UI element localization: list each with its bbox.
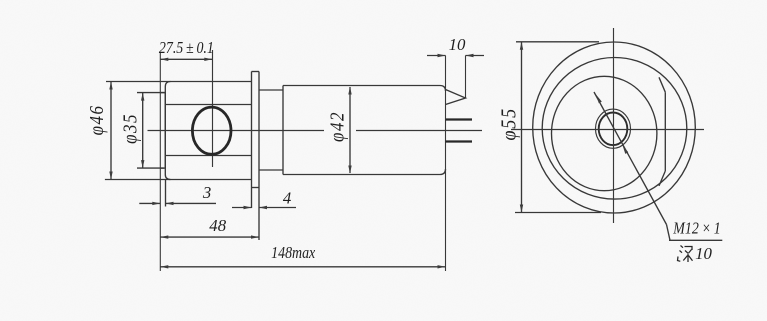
body block bottom edge with phi46 extension (105, 179, 252, 181)
glyph shen (depth) hand drawn (678, 246, 693, 263)
pin upper (446, 118, 473, 120)
svg-text:φ55: φ55 (498, 107, 520, 140)
barrel phi42 top edge (283, 86, 446, 92)
vertical centerline through hex body (212, 50, 214, 167)
barrel left face (282, 86, 284, 175)
body block top edge with phi46 extension (106, 81, 252, 83)
dimension 48 (160, 236, 259, 238)
dimension 148max (160, 266, 445, 268)
port circle (192, 107, 231, 154)
dimension 3 (139, 202, 160, 204)
dimension phi42 (349, 87, 351, 173)
connector key flat (664, 92, 666, 171)
dimension phi46 (110, 82, 112, 180)
barrel phi42 bottom edge (283, 169, 446, 175)
right view circle2 (542, 58, 687, 200)
svg-text:148max: 148max (271, 244, 315, 263)
right view outer circle (533, 42, 696, 213)
dimension 4 (232, 207, 252, 209)
right view vertical centerline (613, 28, 615, 223)
mounting plate (251, 72, 253, 209)
svg-text:10: 10 (449, 35, 466, 54)
thread circle inner (599, 113, 628, 146)
dimension 27.5 (160, 58, 212, 60)
svg-text:48: 48 (209, 216, 226, 235)
dimension phi55 (521, 42, 523, 213)
svg-text:3: 3 (202, 183, 211, 202)
thread circle outer (596, 109, 631, 148)
right view circle3 (552, 76, 657, 190)
body block left edge (165, 82, 170, 180)
connector right extension line (465, 56, 467, 99)
svg-text:φ42: φ42 (327, 111, 348, 142)
flange disc phi35 (159, 53, 161, 271)
connector wedge (446, 90, 466, 105)
svg-text:4: 4 (283, 188, 292, 207)
pin lower (446, 140, 473, 142)
body inner line upper (166, 104, 252, 106)
right view horizontal centerline (511, 129, 704, 131)
svg-text:10: 10 (695, 244, 712, 263)
dimension phi35 (142, 93, 144, 169)
barrel right edge extension line (445, 56, 447, 272)
neck section (259, 89, 283, 91)
svg-text:φ35: φ35 (119, 113, 140, 144)
M12 leader line (594, 92, 667, 225)
svg-text:27.5 ± 0.1: 27.5 ± 0.1 (159, 39, 214, 58)
svg-text:φ46: φ46 (86, 104, 107, 135)
svg-text:M12 × 1: M12 × 1 (672, 219, 720, 238)
dimension 10 (427, 55, 446, 57)
body inner line lower (166, 155, 252, 157)
wire horizontal centerline left view (148, 130, 325, 132)
